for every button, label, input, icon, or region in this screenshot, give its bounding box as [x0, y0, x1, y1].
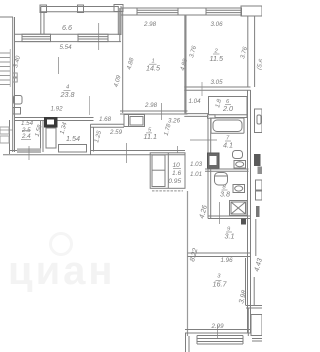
svg-text:2.0: 2.0	[222, 104, 233, 113]
svg-text:1.68: 1.68	[99, 116, 112, 123]
wall rooms 7/8	[205, 169, 249, 171]
wall room1 / room2	[184, 15, 186, 113]
svg-text:23.8: 23.8	[60, 90, 75, 99]
room 9 bottom wall	[188, 253, 251, 257]
bathroom bottom wall with hatch	[17, 146, 41, 160]
room 7 washer	[208, 153, 220, 169]
room 6 closet box	[209, 97, 248, 118]
svg-text:3.8: 3.8	[220, 190, 230, 199]
vent shaft black	[45, 118, 58, 128]
neighbor right column elements	[246, 109, 263, 341]
room4 bottom wall / bathroom top	[15, 118, 94, 121]
balcony left wall	[41, 7, 44, 35]
room 8 sink	[233, 185, 245, 193]
svg-text:2.99: 2.99	[211, 323, 225, 330]
wall under rooms1-6 to hall (corridor top right)	[184, 114, 208, 117]
hall right wall / wet rooms left wall	[208, 118, 211, 219]
bottom wall stub to edge	[186, 333, 190, 352]
door mark under room6	[208, 115, 216, 118]
room 10 box	[150, 146, 185, 191]
svg-text:0.95: 0.95	[168, 178, 181, 185]
left wall of room 4	[10, 17, 15, 154]
tall cabinet	[46, 128, 56, 148]
svg-text:2.98: 2.98	[144, 102, 158, 109]
svg-text:1.6: 1.6	[172, 170, 181, 177]
svg-text:4.1: 4.1	[223, 141, 233, 150]
corridor5 top-left wall	[91, 124, 125, 155]
room 7 sink	[234, 161, 246, 169]
svg-text:2.98: 2.98	[143, 21, 157, 28]
svg-text:1.54: 1.54	[66, 134, 80, 143]
stair hatch left edge	[0, 49, 10, 87]
room 9 vent box	[241, 219, 246, 225]
tick in room8	[219, 202, 221, 224]
svg-text:6.6: 6.6	[62, 23, 72, 32]
left boundary line to neighbor	[0, 16, 13, 18]
svg-text:1.04: 1.04	[189, 98, 202, 105]
svg-text:3.05: 3.05	[211, 79, 224, 86]
bathroom right wall	[41, 121, 44, 153]
room1 bottom wall	[120, 103, 188, 120]
room 7 toilet	[233, 151, 243, 159]
corridor bottom wall	[3, 143, 185, 163]
svg-text:11.1: 11.1	[144, 132, 157, 141]
svg-text:1.96: 1.96	[221, 257, 234, 264]
balcony railing top-left	[40, 5, 123, 13]
top wall rooms 1 and 2	[121, 6, 262, 16]
neighbor small boxes left edge	[0, 127, 9, 143]
balcony right wall	[118, 6, 121, 35]
room 4 top window wall	[15, 23, 122, 50]
kitchen sink room4	[13, 96, 22, 115]
balcony railing bottom	[197, 336, 243, 345]
svg-text:3.1: 3.1	[225, 232, 235, 241]
wardrobe in corridor	[124, 115, 145, 127]
svg-text:3.06: 3.06	[211, 21, 224, 28]
svg-text:5.54: 5.54	[60, 44, 73, 51]
wall room4 / room1	[120, 8, 123, 113]
room 8 shower	[230, 201, 248, 216]
wall rooms 8/9	[208, 216, 251, 219]
svg-text:16.7: 16.7	[213, 280, 228, 289]
room2 right wall + neighbor	[248, 16, 255, 87]
room 7 bathtub	[211, 118, 244, 133]
svg-text:2.59: 2.59	[109, 129, 123, 136]
tick room4	[58, 57, 60, 74]
svg-text:10: 10	[173, 162, 181, 169]
svg-text:1.92: 1.92	[51, 106, 64, 113]
rooms 6-9,3 right wall	[248, 90, 251, 333]
svg-text:11.5: 11.5	[210, 54, 224, 63]
small vents on left wall	[13, 73, 18, 82]
room 8 toilet	[215, 173, 228, 186]
svg-text:1.54: 1.54	[21, 120, 34, 127]
svg-text:3.26: 3.26	[168, 117, 181, 124]
room2 bottom wall	[184, 87, 250, 90]
svg-text:2.4: 2.4	[21, 133, 31, 140]
hall left thin wall long	[187, 191, 189, 336]
room 3 bottom wall	[185, 325, 251, 338]
watermark circle	[51, 234, 72, 255]
svg-text:1.03: 1.03	[190, 161, 203, 168]
wardrobe box lower	[59, 145, 87, 153]
svg-text:14.5: 14.5	[146, 64, 161, 73]
svg-text:циан: циан	[8, 249, 116, 293]
svg-text:1.01: 1.01	[190, 171, 202, 178]
